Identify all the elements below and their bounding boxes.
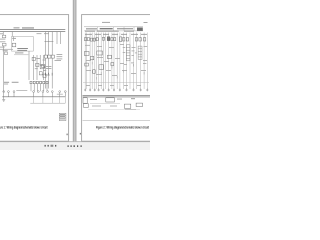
- svg-text:Figure 2 : Wiring diagram/sche: Figure 2 : Wiring diagram/schematic blow…: [96, 126, 150, 130]
- svg-text:Figure 1 : Wiring diagram/sche: Figure 1 : Wiring diagram/schematic blow…: [0, 125, 48, 129]
